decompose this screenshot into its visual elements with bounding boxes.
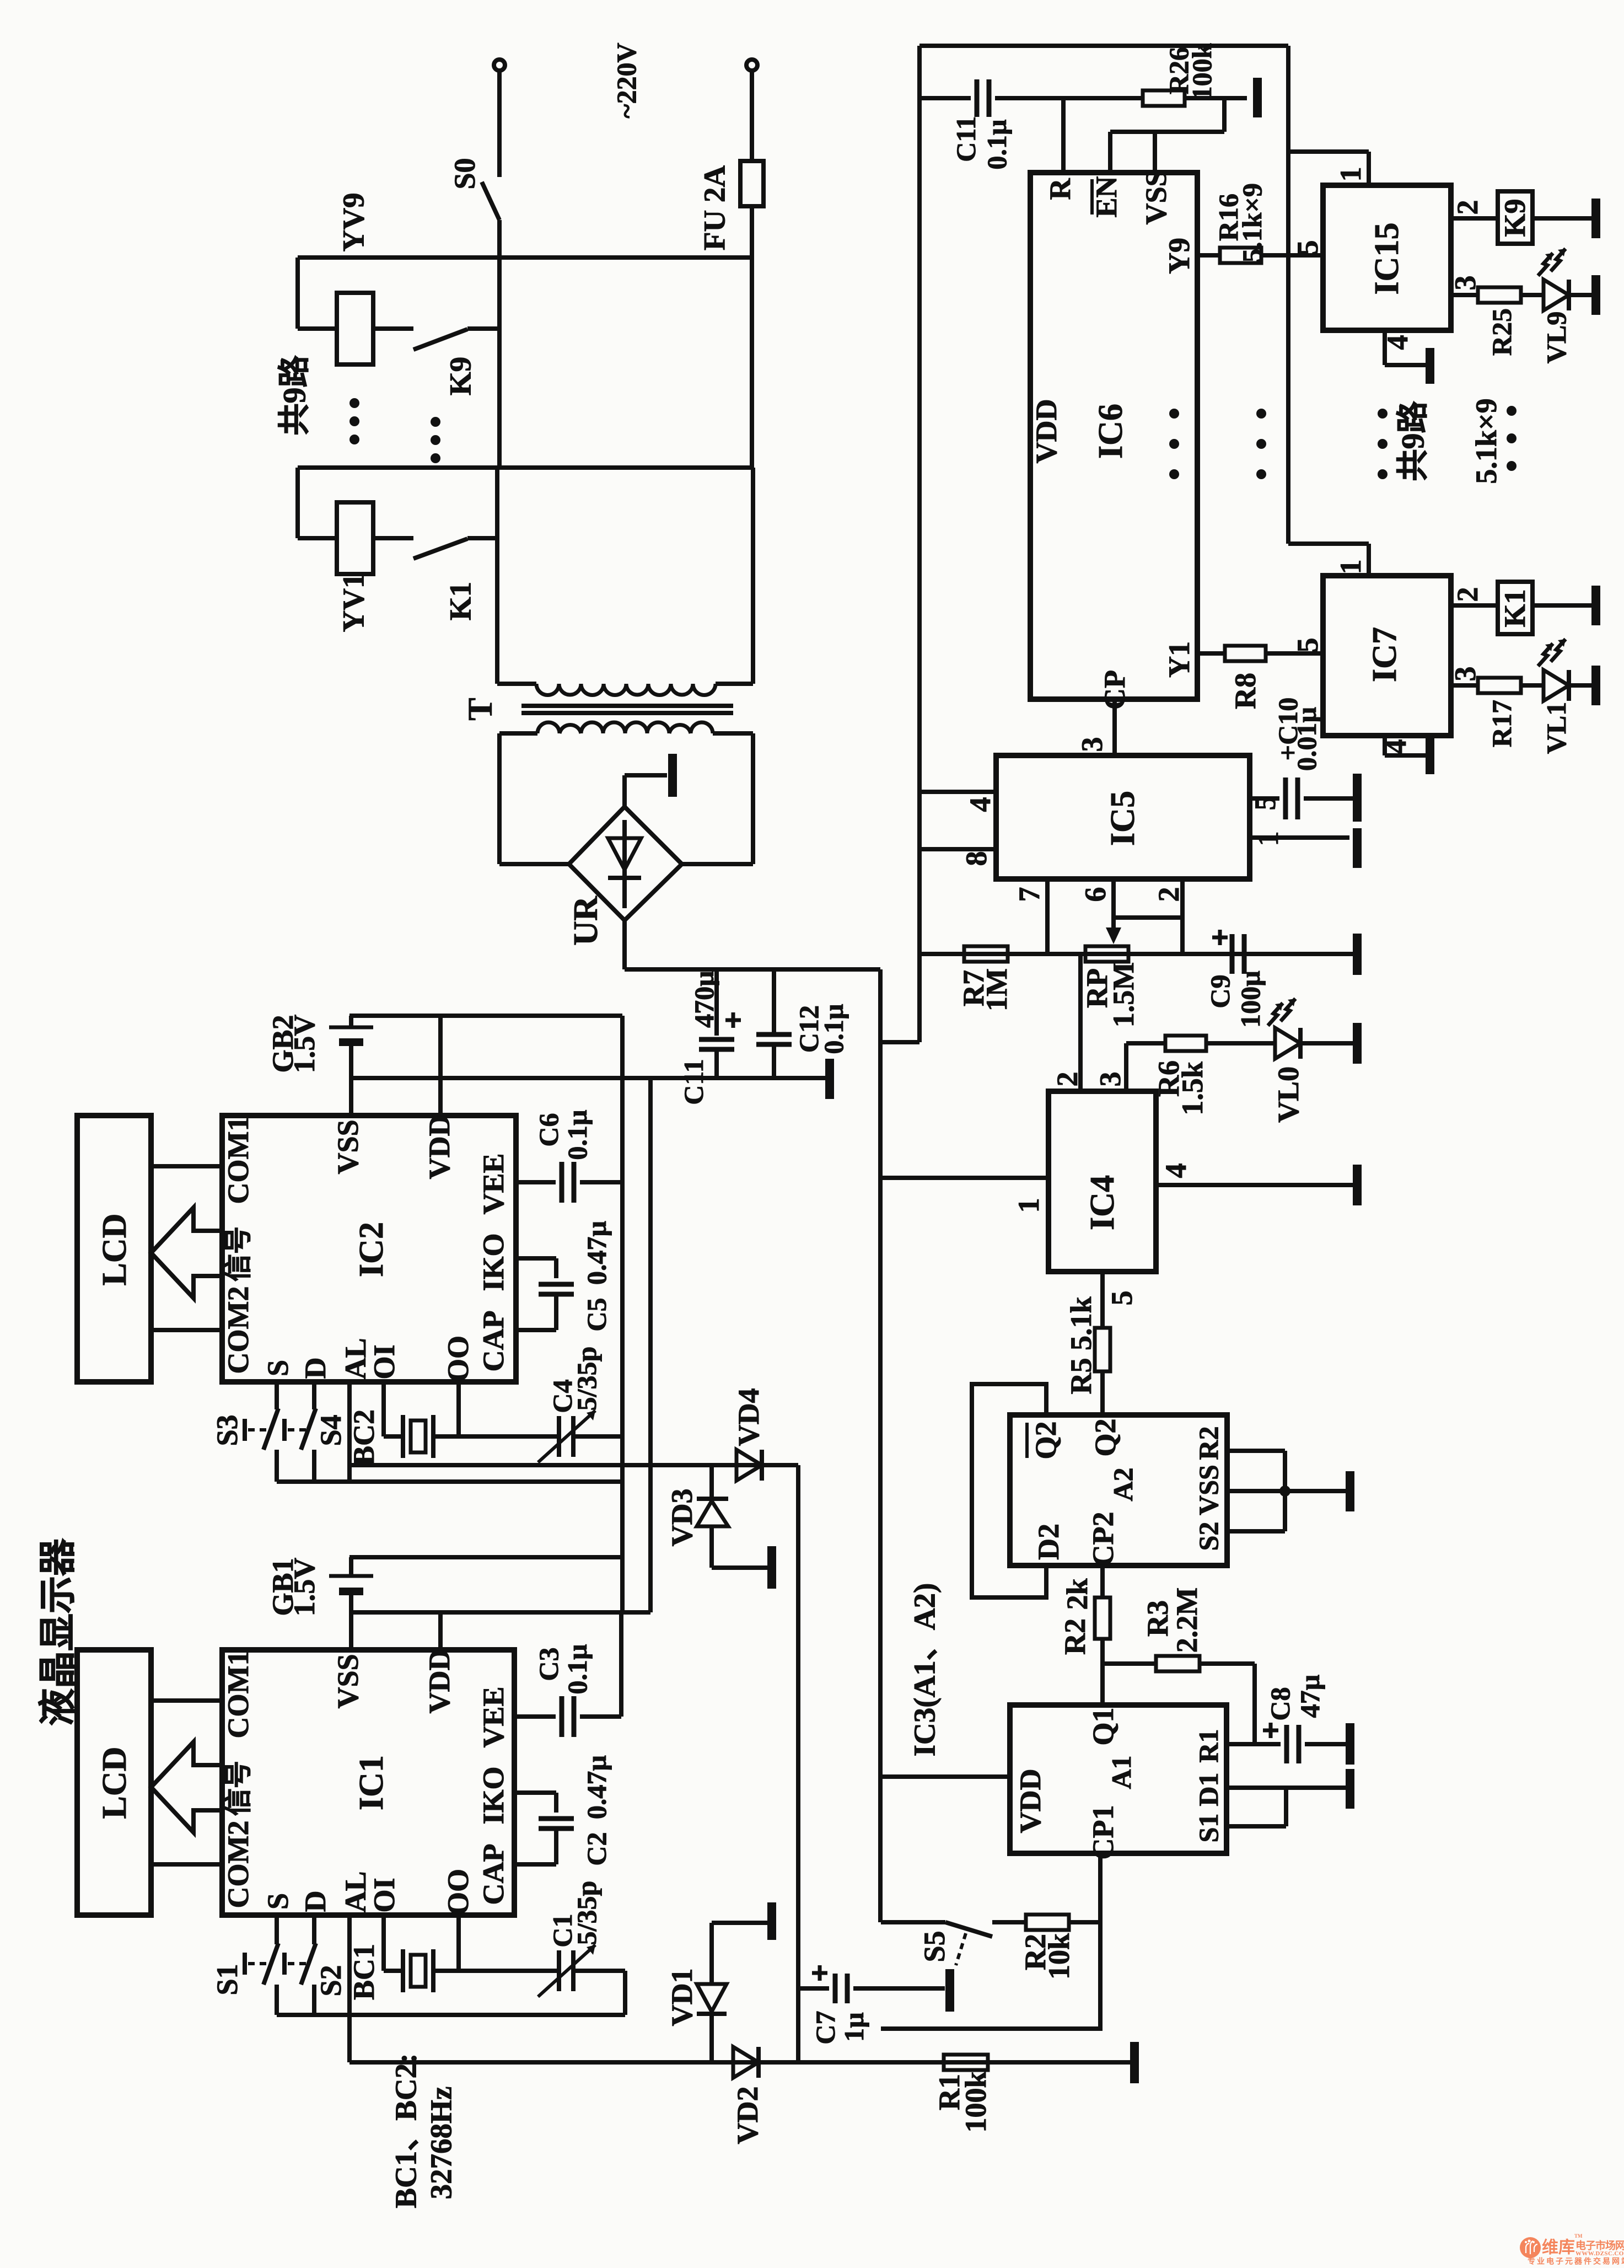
wire C1 rail down (623, 1971, 627, 2015)
wire AL down IC1 (347, 1915, 352, 2015)
ground C8 (1346, 1723, 1354, 1765)
svg-text:BC1: BC1 (347, 1944, 380, 2000)
svg-text:100k: 100k (1186, 43, 1217, 100)
potentiometer RP 1.5M (1085, 946, 1128, 962)
wire D1 pin (1227, 1786, 1346, 1790)
wire fuse lead (750, 71, 754, 161)
ground VL9 (1591, 275, 1600, 315)
relay coil YV9 (337, 293, 373, 364)
svg-text:COM1: COM1 (222, 1651, 255, 1739)
wire top rail (919, 44, 1288, 48)
wire LCD COM1 (151, 1164, 222, 1168)
wire IC4 pin1 (880, 1176, 1048, 1180)
wire secondary to bridge left (499, 862, 569, 866)
svg-text:IC4: IC4 (1084, 1175, 1121, 1230)
wire IKO loop IC1 (514, 1790, 556, 1795)
svg-text:C5: C5 (581, 1297, 612, 1331)
svg-text:0.1µ: 0.1µ (562, 1644, 593, 1694)
svg-text:IKO: IKO (477, 1233, 510, 1291)
svg-text:LCD: LCD (96, 1747, 133, 1819)
wire IC6 R pin (1061, 98, 1066, 173)
svg-text:C3: C3 (533, 1647, 564, 1681)
svg-text:S1: S1 (211, 1964, 244, 1995)
wire A1 VDD (881, 1774, 1010, 1779)
capacitor C11 470u (714, 969, 719, 1036)
svg-text:0.47µ: 0.47µ (581, 1755, 612, 1819)
svg-text:K1: K1 (1498, 589, 1531, 627)
svg-text:D: D (299, 1358, 332, 1379)
crystal BC1 (401, 1949, 405, 1992)
IC4 box (1048, 1091, 1156, 1272)
IC6 box (1030, 173, 1197, 699)
svg-text:0.1µ: 0.1µ (562, 1109, 593, 1160)
ground IC5 pin1 (1353, 828, 1362, 868)
svg-text:OI: OI (368, 1878, 401, 1912)
wire CAP loop (516, 1328, 556, 1332)
capacitor C10 0.01u (1283, 778, 1288, 819)
wire A2 S2 pin (1227, 1529, 1285, 1534)
ground IC7 pin4 (1426, 738, 1434, 774)
svg-text:OO: OO (442, 1869, 475, 1915)
wire IC15 pin2 to K9 (1451, 216, 1498, 221)
svg-text:2: 2 (1451, 200, 1484, 215)
switch box K9 (1498, 191, 1532, 244)
svg-text:5.1k×9: 5.1k×9 (1470, 398, 1503, 484)
svg-text:S4: S4 (314, 1414, 347, 1446)
capacitor C7 1u (798, 1986, 829, 1991)
resistor R2 2k (1100, 1565, 1105, 1597)
wire OO down IC1 (456, 1915, 461, 1971)
ground C7 S5 (945, 1969, 954, 2012)
wire VEE line (516, 1180, 556, 1184)
IC2 box (222, 1116, 516, 1382)
lightning VL1 (1538, 644, 1553, 666)
ground C10 (1353, 774, 1362, 822)
ground VD1 (767, 1902, 776, 1940)
svg-text:1.5V: 1.5V (288, 1015, 321, 1074)
svg-text:R8: R8 (1229, 673, 1262, 709)
svg-text:470µ: 470µ (689, 971, 719, 1028)
wire S0 upper lead (497, 71, 502, 177)
wire S3 S4 AL link (277, 1479, 622, 1484)
ground K9 (1591, 199, 1600, 238)
node A2 VSS junction (1279, 1486, 1290, 1497)
wire IC4 pin4 (1156, 1183, 1353, 1187)
svg-text:共9路: 共9路 (1395, 401, 1431, 481)
wire CP1 loop (881, 1853, 1100, 2029)
A1 box (1010, 1705, 1227, 1853)
transformer T core (521, 704, 733, 708)
svg-text:K1: K1 (444, 582, 477, 620)
svg-text:R17: R17 (1486, 700, 1517, 747)
wire bridge top to ground (622, 775, 627, 807)
svg-text:CAP: CAP (477, 1844, 510, 1905)
battery GB2 1.5V (349, 1016, 353, 1026)
svg-text:VDD: VDD (1030, 399, 1063, 464)
wire YV1 rail / transformer primary top (298, 465, 753, 470)
transformer T secondary loop (497, 733, 502, 864)
resistor R2 10k (1026, 1915, 1069, 1930)
switch S5 (945, 1922, 992, 1937)
wire S5 line (881, 1920, 945, 1924)
wire YV9 rail (298, 255, 750, 260)
fuse FU 2A (740, 161, 763, 206)
svg-text:共9路: 共9路 (277, 355, 313, 436)
svg-text:TM: TM (1574, 2233, 1583, 2239)
svg-text:S3: S3 (211, 1414, 244, 1446)
svg-text:CP1: CP1 (1087, 1805, 1120, 1860)
svg-text:S5: S5 (918, 1931, 951, 1962)
wire A2 VSS pin (1227, 1489, 1346, 1493)
svg-text:VDD: VDD (423, 1649, 456, 1714)
arrow COM2 signal to LCD1 (151, 1742, 222, 1832)
svg-text:CAP: CAP (477, 1311, 510, 1372)
svg-text:C2: C2 (581, 1832, 612, 1865)
watermark logo (1520, 2233, 1624, 2266)
wire IC7 pin1 (1288, 541, 1369, 546)
switch S0 (482, 182, 499, 220)
diode VD1 (709, 1923, 714, 1983)
IC1 box (222, 1650, 514, 1915)
svg-text:C7: C7 (810, 2010, 841, 2044)
wire secondary to bridge right (682, 862, 753, 866)
wire Q1 to R2 junction (1100, 1664, 1105, 1705)
wire coil to K9 (373, 326, 413, 331)
svg-text:维库: 维库 (1542, 2239, 1575, 2257)
svg-text:47µ: 47µ (1294, 1675, 1325, 1718)
wire ground rail below C11 C12 (349, 1076, 825, 1080)
svg-text:C6: C6 (533, 1113, 564, 1146)
wire VEE line IC1 (514, 1714, 556, 1719)
wire IC5 pin7 (1045, 879, 1050, 954)
svg-text:R2: R2 (1193, 1426, 1224, 1460)
svg-text:0.1µ: 0.1µ (818, 1004, 849, 1054)
wire VD1 branch (712, 1921, 768, 1925)
wire right rail (1286, 46, 1290, 544)
wire OO down (456, 1382, 461, 1436)
resistor R6 1.5k (1165, 1036, 1206, 1051)
svg-text:4: 4 (1379, 739, 1412, 754)
IC5 box (996, 755, 1250, 879)
svg-text:S1: S1 (1193, 1814, 1224, 1843)
LED VL9 (1544, 280, 1569, 310)
svg-text:3: 3 (1076, 737, 1109, 752)
IC7 box (1323, 576, 1451, 736)
svg-text:VL0: VL0 (1272, 1066, 1305, 1123)
svg-text:AL: AL (339, 1871, 372, 1912)
wire IC5 pin6 pin2 link (1114, 915, 1182, 920)
ground bottom rail (1130, 2042, 1139, 2083)
svg-text:VEE: VEE (477, 1686, 510, 1747)
resistor R5 5.1k (1100, 1272, 1105, 1328)
svg-text:IC1: IC1 (353, 1755, 390, 1810)
wire IC5 pin4 (919, 790, 996, 794)
svg-text:C11: C11 (950, 116, 981, 162)
svg-text:EN: EN (1090, 176, 1123, 217)
svg-text:3: 3 (1094, 1072, 1127, 1087)
IC15 box (1323, 185, 1451, 330)
wire vertical x1180 to VD line (648, 1078, 653, 1612)
svg-text:LCD: LCD (96, 1214, 133, 1286)
wire A2 R2 pin (1227, 1449, 1285, 1453)
svg-text:6: 6 (1079, 887, 1112, 902)
wire crystal line to C4 (459, 1434, 559, 1439)
svg-text:WWW.DZSC.COM: WWW.DZSC.COM (1575, 2250, 1624, 2257)
node 220V terminal N (746, 60, 757, 71)
svg-text:R25: R25 (1486, 308, 1517, 356)
wire AL down (347, 1382, 352, 1482)
wire IC5 pin5 to C10 (1250, 796, 1279, 801)
wire analog rail (917, 46, 922, 954)
crystal BC2 (401, 1415, 405, 1458)
diode VD3 (709, 1465, 714, 1497)
svg-text:A2: A2 (1107, 1467, 1138, 1501)
svg-text:Y9: Y9 (1163, 238, 1196, 274)
switch box K1 (1498, 582, 1532, 634)
svg-text:IC3(A1、A2): IC3(A1、A2) (908, 1583, 942, 1757)
svg-text:VSS: VSS (331, 1119, 364, 1174)
wire C3 to VDD rail (619, 1612, 623, 1717)
capacitor C3 0.1u (560, 1696, 564, 1737)
svg-text:OO: OO (442, 1336, 475, 1382)
resistor R25 (1478, 287, 1521, 303)
svg-text:2.2M: 2.2M (1170, 1588, 1203, 1653)
svg-text:R2: R2 (1058, 1618, 1091, 1655)
capacitor C9 100u (1230, 934, 1235, 974)
resistor R1 100k (944, 2055, 988, 2070)
svg-text:1: 1 (1012, 1198, 1045, 1213)
LED VL1 (1544, 670, 1569, 701)
wire IC5 pin2 (1180, 879, 1185, 954)
dots IC6 outputs (1169, 409, 1179, 419)
resistor R7 1M (964, 946, 1008, 962)
wire OI to crystal (381, 1382, 386, 1436)
svg-text:5: 5 (1105, 1291, 1138, 1306)
transformer T primary winding (536, 684, 716, 695)
wire YV9 coil branch (295, 258, 300, 329)
svg-text:1: 1 (1334, 167, 1367, 182)
ground IC4 pin4 (1353, 1165, 1362, 1205)
resistor R3 2.2M (1103, 1661, 1156, 1666)
transformer T secondary winding (537, 722, 713, 733)
svg-text:5/35p: 5/35p (571, 1347, 602, 1411)
svg-text:BC1、BC2:: BC1、BC2: (389, 2053, 423, 2208)
wire S1 S2 AL link (277, 2013, 625, 2017)
svg-text:COM2: COM2 (222, 1821, 255, 1908)
wire vertical distribution x1129 (620, 1016, 625, 1612)
svg-text:K9: K9 (444, 357, 477, 395)
ground C9 rail (1353, 934, 1362, 975)
svg-text:FU 2A: FU 2A (698, 165, 732, 251)
switch S4 (312, 1382, 316, 1409)
svg-text:CP: CP (1098, 670, 1131, 710)
svg-text:R: R (1044, 178, 1077, 200)
svg-text:IC5: IC5 (1104, 791, 1142, 846)
svg-text:IC15: IC15 (1368, 223, 1406, 295)
capacitor C11 0.1u (975, 79, 980, 117)
svg-text:T: T (462, 698, 499, 720)
svg-text:OI: OI (368, 1344, 401, 1379)
svg-text:32768Hz: 32768Hz (424, 2087, 458, 2200)
wire VD4 to lower circuits (796, 1465, 800, 2062)
diode VD2 (733, 2047, 759, 2078)
wire IC15 pin3 to R25 (1451, 293, 1478, 297)
capacitor C6 0.1u (560, 1162, 564, 1203)
wire YV1 coil branch (295, 468, 300, 538)
arrow COM2 signal to LCD (151, 1208, 222, 1298)
svg-text:S: S (261, 1360, 294, 1376)
svg-text:IKO: IKO (477, 1766, 510, 1824)
svg-text:信号: 信号 (223, 1761, 254, 1816)
svg-text:C11: C11 (678, 1059, 709, 1104)
svg-text:C8: C8 (1265, 1687, 1295, 1720)
wire OI to crystal BC1 (381, 1915, 386, 1971)
wire K9 to ground (1532, 216, 1592, 221)
trimmer capacitor C1 5/35p (557, 1950, 561, 1991)
svg-text:2k: 2k (1061, 1578, 1094, 1610)
svg-text:VSS: VSS (331, 1654, 364, 1708)
svg-text:VSS: VSS (1193, 1465, 1224, 1515)
svg-text:S2: S2 (314, 1965, 347, 1996)
svg-text:0.47µ: 0.47µ (581, 1221, 612, 1285)
ground R26 (1253, 78, 1262, 117)
svg-text:1M: 1M (980, 968, 1013, 1011)
svg-text:YV9: YV9 (337, 193, 370, 252)
wire IC4 pin5 (1100, 1272, 1105, 1328)
wire GB1 top rail (349, 1555, 622, 1559)
wire IC6 CP to IC5 pin3 (1112, 699, 1117, 755)
svg-text:COM1: COM1 (222, 1117, 255, 1204)
svg-text:VD2: VD2 (731, 2087, 764, 2144)
wire LCD1 COM2 (151, 1862, 222, 1867)
svg-text:VL9: VL9 (1541, 312, 1572, 363)
svg-text:4: 4 (1159, 1164, 1192, 1178)
wire IC15 pin1 (1288, 149, 1369, 154)
svg-text:5.1k×9: 5.1k×9 (1236, 183, 1267, 262)
svg-text:Q2: Q2 (1089, 1418, 1122, 1456)
switch S1 (275, 1915, 279, 1944)
svg-text:R1: R1 (1193, 1729, 1224, 1762)
wire Q2bar D2 feedback loop (972, 1384, 1046, 1597)
wire VDD rail D (349, 1014, 622, 1018)
wire IC5 pin8 (919, 847, 996, 851)
wire IKO loop (516, 1256, 556, 1261)
wire IC4 pin2 (1078, 954, 1083, 1091)
wire S1 pin (1227, 1824, 1286, 1829)
ground bridge (668, 754, 677, 797)
resistor R17 (1478, 678, 1521, 693)
svg-text:BC2: BC2 (347, 1409, 380, 1466)
svg-text:专业电子元器件交易网站: 专业电子元器件交易网站 (1528, 2257, 1624, 2266)
wire bottom rail (349, 2060, 1130, 2065)
svg-text:液晶显示器: 液晶显示器 (37, 1538, 79, 1726)
lightning VL9 (1538, 253, 1553, 276)
svg-text:IC7: IC7 (1366, 627, 1403, 682)
A2 box (1010, 1415, 1227, 1565)
resistor R16 5.1k x9 (1220, 248, 1261, 263)
svg-text:D: D (299, 1891, 332, 1912)
svg-text:8: 8 (960, 851, 993, 866)
dots ellipsis relay column (349, 398, 359, 408)
wire IC5 pin6 wiper (1111, 879, 1116, 936)
wire R1 pin to C8 (1227, 1742, 1281, 1746)
wire IC7 pin4 (1383, 736, 1387, 755)
wire VDD rail IC1 (349, 1610, 650, 1615)
svg-text:IC2: IC2 (353, 1222, 390, 1277)
svg-text:100k: 100k (959, 2071, 992, 2132)
svg-text:1.5M: 1.5M (1107, 962, 1140, 1027)
wire K1 to ground (1532, 603, 1592, 608)
wire IC7 pin2 to K1 (1451, 603, 1498, 608)
wire IC7 pin3 to R17 (1451, 683, 1478, 688)
wire rail link to VDD (917, 954, 922, 1042)
svg-text:K9: K9 (1498, 199, 1531, 237)
svg-text:C9: C9 (1204, 974, 1235, 1008)
wire IC1 VDD to rail (438, 1612, 443, 1650)
transformer T primary loop (495, 468, 499, 684)
svg-text:100µ: 100µ (1235, 971, 1266, 1028)
wire LCD COM2 (151, 1328, 222, 1332)
svg-text:S0: S0 (448, 158, 481, 189)
svg-text:Q2: Q2 (1029, 1421, 1062, 1459)
svg-text:4: 4 (964, 797, 997, 812)
svg-text:VL1: VL1 (1541, 702, 1572, 754)
svg-text:IC6: IC6 (1092, 404, 1130, 459)
relay coil YV1 (337, 502, 373, 574)
capacitor C12 0.1u (772, 969, 776, 1035)
LCD display upper box (77, 1116, 151, 1382)
LCD display lower box (77, 1650, 151, 1915)
wire IC5 pin1 (1250, 835, 1349, 840)
svg-text:AL: AL (339, 1338, 372, 1379)
wire IC4 pin3 to R6 (1124, 1043, 1128, 1091)
wire IC6 EN VSS tie (1108, 132, 1112, 173)
ground VD3 (767, 1546, 776, 1589)
switch S2 (312, 1915, 316, 1944)
LED VL0 (1275, 1028, 1300, 1059)
bridge rectifier UR (569, 807, 682, 920)
svg-text:~220V: ~220V (611, 42, 642, 118)
svg-text:信号: 信号 (223, 1226, 254, 1282)
svg-text:S: S (261, 1893, 294, 1910)
lightning VL0 (1268, 1003, 1283, 1026)
svg-text:1.5k: 1.5k (1176, 1061, 1209, 1116)
svg-text:D1: D1 (1193, 1772, 1224, 1806)
switch S3 (275, 1382, 279, 1409)
ground IC15 pin4 (1426, 348, 1434, 384)
svg-text:VD4: VD4 (732, 1388, 765, 1446)
capacitor C2 0.47u (554, 1793, 558, 1813)
svg-text:2: 2 (1451, 587, 1484, 602)
switch K1 (413, 539, 467, 559)
bridge UR internal diode (622, 820, 627, 908)
svg-text:UR: UR (567, 896, 605, 946)
svg-text:5/35p: 5/35p (571, 1881, 602, 1945)
wire IC2 VDD to rail (438, 1016, 443, 1116)
svg-text:CP2: CP2 (1087, 1512, 1120, 1567)
wire S0 to transformer (497, 220, 502, 468)
svg-text:1: 1 (1334, 560, 1367, 575)
ground power rail (825, 1059, 834, 1099)
switch K9 (413, 329, 467, 350)
trimmer capacitor C4 5/35p (557, 1416, 561, 1457)
ground A2 VSS (1346, 1471, 1354, 1511)
svg-text:5: 5 (1291, 240, 1324, 255)
svg-text:S2: S2 (1193, 1522, 1224, 1551)
wire LCD1 COM1 (151, 1698, 222, 1703)
dots ellipsis switch column (431, 417, 440, 427)
svg-text:5: 5 (1291, 638, 1324, 653)
